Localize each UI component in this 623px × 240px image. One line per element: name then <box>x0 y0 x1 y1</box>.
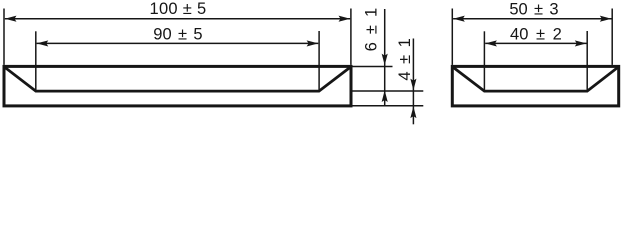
dimension line 4±1 <box>412 39 414 125</box>
extension line inner left (right profile) <box>483 31 485 91</box>
extension line left outer (right profile) <box>451 9 453 65</box>
svg-text:50 ± 3: 50 ± 3 <box>509 1 558 19</box>
svg-text:40 ± 2: 40 ± 2 <box>510 25 562 43</box>
extension line inner left (left profile) <box>35 31 37 91</box>
extension outer bottom right <box>353 105 424 107</box>
left profile groove <box>5 67 350 91</box>
extension line right (right profile, inset) <box>611 9 613 65</box>
right profile groove <box>453 67 618 91</box>
extension line inner right (right profile) <box>586 31 588 91</box>
dimension line 6±1 <box>384 9 386 106</box>
extension line right outer (left profile) <box>350 9 352 65</box>
left profile outer outline <box>4 66 351 106</box>
dimension line 100±5 <box>5 18 350 20</box>
extension line inner right (left profile) <box>318 31 320 91</box>
svg-text:4 ± 1: 4 ± 1 <box>396 38 414 80</box>
dimension line 40±2 <box>485 42 586 44</box>
dimension line 50±3 <box>453 18 611 20</box>
extension inner bottom right <box>353 90 424 92</box>
dimension line 90±5 <box>37 42 319 44</box>
extension top edge right <box>353 66 393 68</box>
svg-text:100 ± 5: 100 ± 5 <box>149 0 206 18</box>
right profile outer outline <box>452 66 618 106</box>
svg-text:90 ± 5: 90 ± 5 <box>153 26 202 44</box>
extension line left outer <box>3 9 5 65</box>
svg-text:6 ± 1: 6 ± 1 <box>363 8 381 52</box>
